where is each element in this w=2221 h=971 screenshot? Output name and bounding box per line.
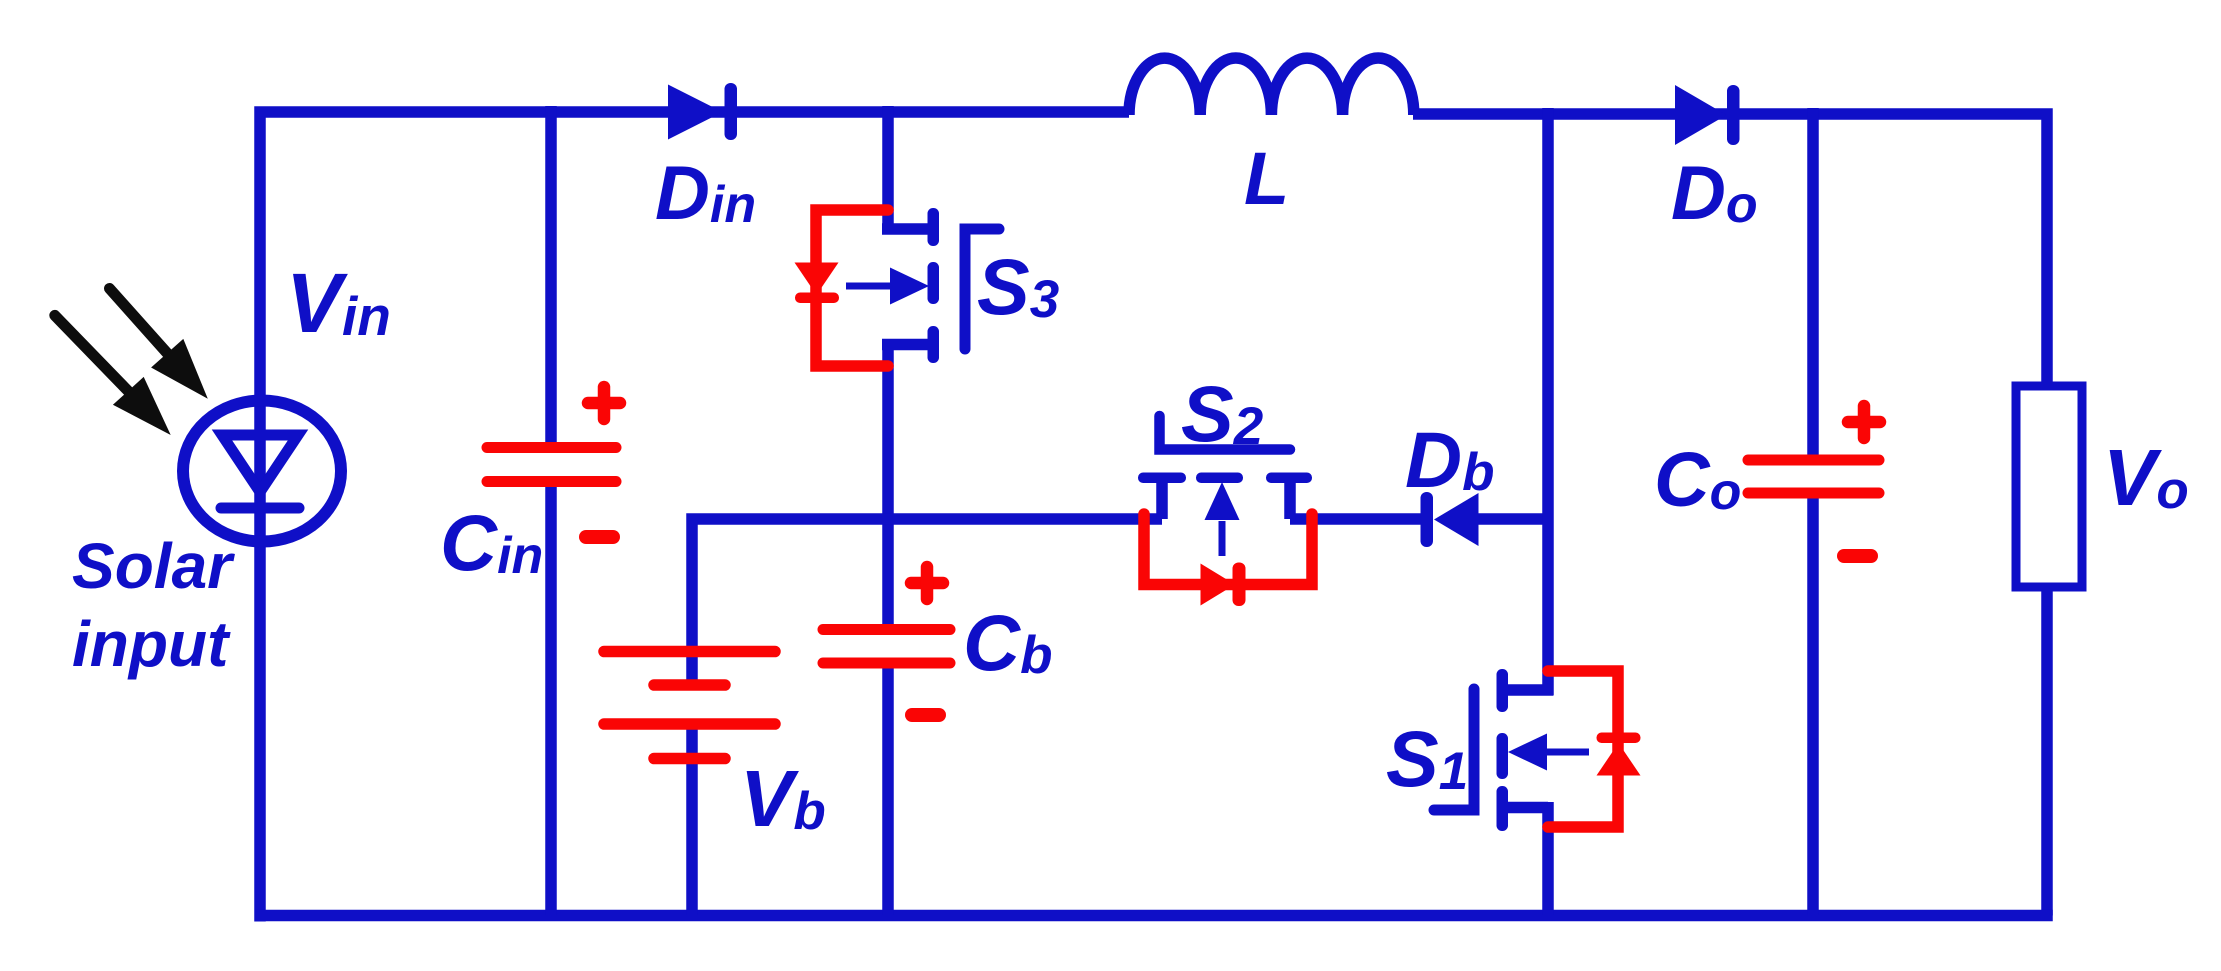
wire S3 source stub and Cb branch upper [882,339,933,629]
wire Co branch upper [1807,108,1819,460]
mosfet S2 body diode triangle [1201,564,1236,606]
mosfet S1 channel bars [1497,669,1509,831]
capacitor Cb plates [823,630,950,664]
solar input photodiode circle [183,401,341,542]
svg-text:Vb: Vb [740,754,826,843]
mosfet S1 body diode triangle [1597,743,1641,776]
solar diode cathode bar [221,503,299,514]
capacitor Cb plus [911,567,943,599]
mosfet S2 channel bars [1138,473,1312,484]
mosfet S3 body diode bar [795,293,839,304]
wire mid node: Vb top corner to S2 left lead [692,519,1162,685]
wire Db to junction vertical [1478,513,1553,525]
wire Cb branch lower [882,660,894,915]
mosfet S2 body diode bar [1233,563,1246,607]
capacitor Cin plates [487,448,616,482]
mosfet S2 left lead [1156,480,1168,519]
capacitor Co minus [1844,549,1871,563]
mosfet S1 body diode bar [1597,733,1641,744]
wire left loop: left vertical rail and top rail to inductor [260,112,1129,922]
svg-text:input: input [72,608,231,680]
inductor L [1129,58,1414,115]
wire S1 source stub down to bottom rail [1504,802,1548,915]
svg-text:Din: Din [655,151,756,236]
solar ray arrow 1 [110,289,208,399]
wire Cin branch lower [545,478,557,915]
svg-text:Vo: Vo [2103,433,2189,522]
svg-text:Vin: Vin [286,256,391,350]
wire top rail right of inductor to top-right corner [1413,114,2047,386]
diode Din cathode bar [725,83,738,140]
wire Cin branch upper [545,106,557,447]
diode Din triangle [668,85,723,140]
wire junction vertical from top rail to S1 drain [1504,108,1553,696]
mosfet S2 gate lead underline [1160,416,1291,450]
diode Db cathode bar [1421,492,1434,547]
svg-text:Cin: Cin [440,498,543,587]
load resistor Vo box [2016,386,2082,587]
wire S3 drain branch from top rail [882,106,933,235]
capacitor Cin minus [586,530,613,544]
svg-text:Co: Co [1654,437,1741,523]
mosfet S3 body diode red loop [816,210,888,366]
svg-text:S2: S2 [1181,369,1263,458]
wire bottom rail [255,910,2053,922]
wire Vb lower lead [686,724,698,915]
svg-text:L: L [1244,137,1289,220]
solar diode triangle [222,435,298,492]
mosfet S1 body diode red loop [1548,671,1618,827]
capacitor Cin plus [588,387,620,419]
svg-text:Do: Do [1671,151,1758,236]
wire S2 right lead to Db [1290,513,1421,525]
battery Vb plates [604,652,775,759]
svg-text:S3: S3 [977,242,1059,331]
capacitor Co plus [1848,406,1880,438]
mosfet S2 right lead [1284,480,1296,519]
mosfet S3 channel bars [928,208,940,363]
diode Db triangle [1434,493,1479,546]
diode Do cathode bar [1727,85,1740,145]
wire Co branch lower [1807,490,1819,915]
mosfet S1 arrow [1541,749,1589,756]
mosfet S2 arrow [1219,521,1226,556]
capacitor Co plates [1748,460,1879,493]
mosfet S3 gate lead [965,229,999,349]
diode Do triangle [1675,85,1727,145]
svg-text:Solar: Solar [72,530,235,602]
mosfet S3 body diode triangle [795,263,839,296]
mosfet S2 body diode red loop [1144,514,1312,585]
mosfet S3 arrow [846,283,896,290]
svg-text:Db: Db [1405,415,1494,504]
wire right vertical below Vo box [2041,587,2053,916]
svg-text:Cb: Cb [963,598,1052,687]
solar ray arrow 2 [55,315,171,435]
svg-text:S1: S1 [1386,714,1468,803]
mosfet S1 gate lead [1434,689,1474,810]
capacitor Cb minus [912,708,939,722]
